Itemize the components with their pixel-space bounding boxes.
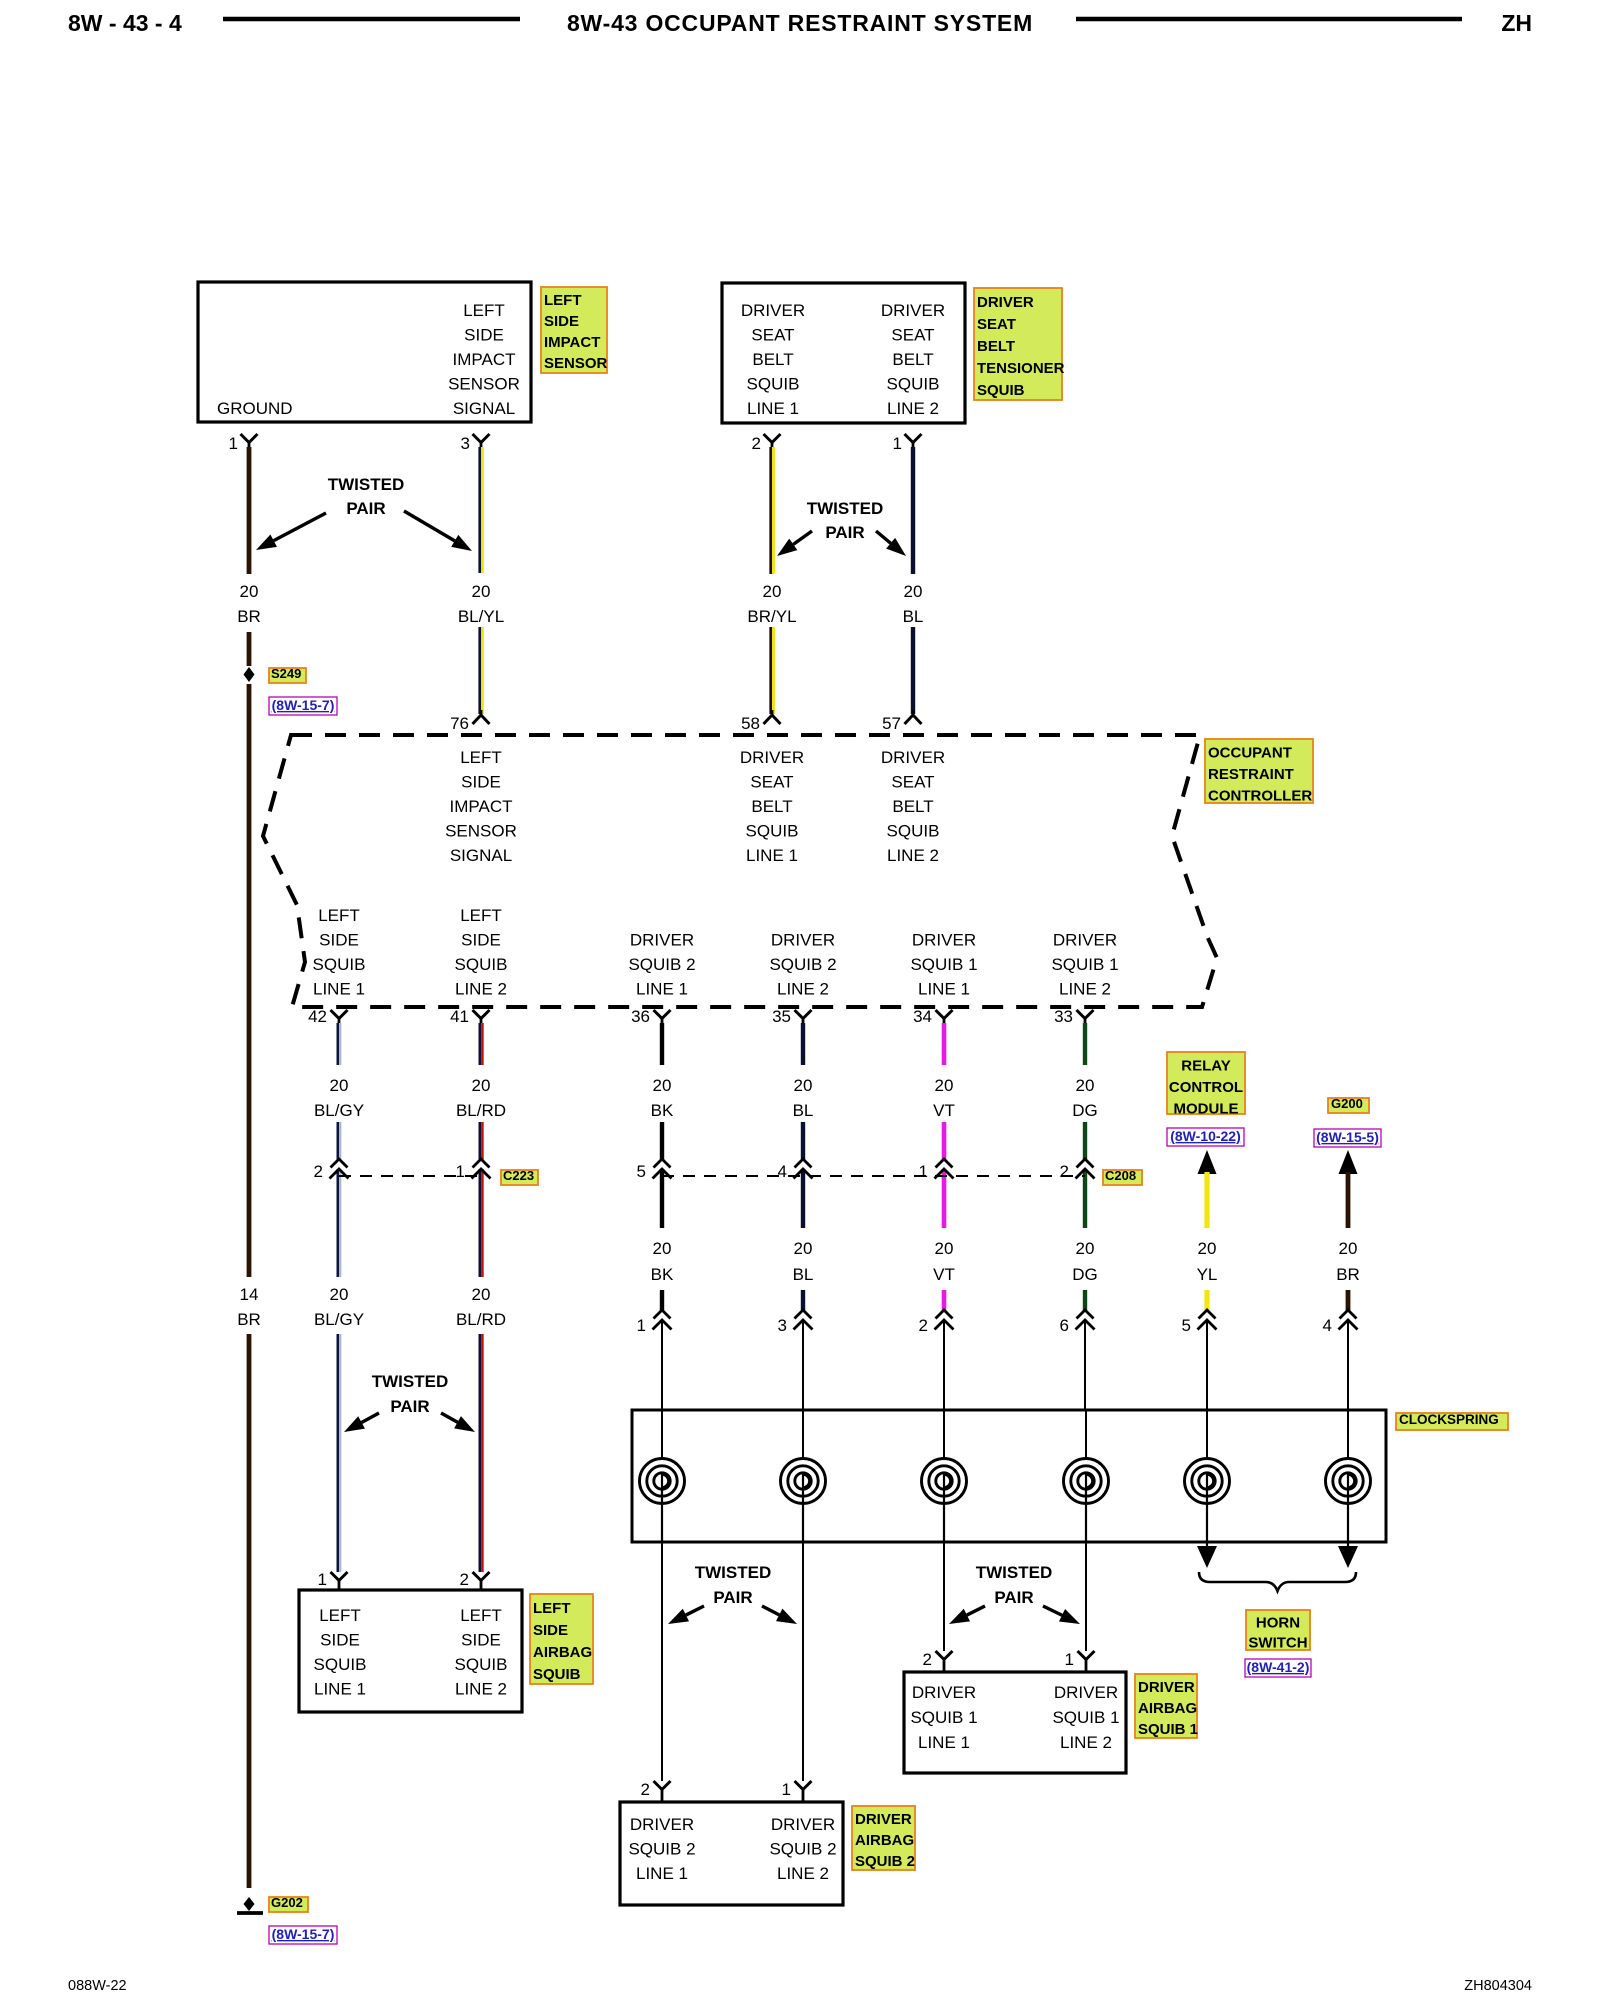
svg-text:20: 20	[794, 1239, 813, 1258]
svg-text:LINE 1: LINE 1	[313, 980, 365, 999]
svg-text:LINE 1: LINE 1	[636, 1864, 688, 1883]
clockspring coil 5	[1206, 1410, 1208, 1459]
wire clockspring to driver airbag squib 1 line 1	[943, 1542, 945, 1651]
svg-text:DRIVER: DRIVER	[630, 1815, 694, 1834]
header rule left	[223, 17, 520, 22]
svg-text:3: 3	[461, 434, 470, 453]
svg-text:34: 34	[913, 1007, 932, 1026]
svg-text:DRIVER: DRIVER	[855, 1811, 912, 1828]
svg-text:(8W-15-5): (8W-15-5)	[1316, 1129, 1379, 1145]
svg-text:20: 20	[904, 582, 923, 601]
svg-text:G200: G200	[1331, 1096, 1363, 1111]
svg-text:TENSIONER: TENSIONER	[977, 360, 1065, 377]
svg-text:LEFT: LEFT	[460, 906, 502, 925]
svg-text:20: 20	[763, 582, 782, 601]
svg-text:LINE 2: LINE 2	[1059, 980, 1111, 999]
svg-text:SQUIB 2: SQUIB 2	[769, 1840, 836, 1859]
component box: left side airbag squib	[299, 1590, 522, 1712]
svg-text:CONTROLLER: CONTROLLER	[1208, 787, 1312, 804]
svg-text:SIGNAL: SIGNAL	[450, 846, 512, 865]
svg-text:CLOCKSPRING: CLOCKSPRING	[1399, 1412, 1499, 1427]
svg-text:MODULE: MODULE	[1174, 1100, 1239, 1117]
svg-text:BL: BL	[903, 607, 924, 626]
svg-text:(8W-41-2): (8W-41-2)	[1247, 1659, 1310, 1675]
svg-text:C223: C223	[503, 1168, 534, 1183]
svg-text:1: 1	[1065, 1650, 1074, 1669]
label: DRIVER AIRBAG SQUIB 2	[852, 1806, 915, 1870]
label: LEFT SIDE IMPACT SENSOR	[541, 287, 607, 373]
svg-text:35: 35	[772, 1007, 791, 1026]
svg-text:IMPACT: IMPACT	[450, 797, 513, 816]
svg-text:PAIR: PAIR	[713, 1588, 752, 1607]
svg-text:TWISTED: TWISTED	[976, 1563, 1053, 1582]
svg-text:BL/GY: BL/GY	[314, 1101, 364, 1120]
svg-text:S249: S249	[271, 666, 301, 681]
svg-text:VT: VT	[933, 1101, 955, 1120]
splice S249	[244, 667, 255, 682]
svg-text:1: 1	[919, 1162, 928, 1181]
module: occupant restraint controller (dashed outline)	[263, 735, 1217, 1007]
svg-text:LINE 2: LINE 2	[777, 1864, 829, 1883]
svg-text:1: 1	[229, 434, 238, 453]
svg-text:(8W-10-22): (8W-10-22)	[1170, 1128, 1241, 1144]
svg-text:BR: BR	[237, 607, 261, 626]
wire 20 BL/RD segment	[478, 1023, 481, 1065]
svg-text:DG: DG	[1072, 1265, 1098, 1284]
svg-text:DRIVER: DRIVER	[881, 301, 945, 320]
svg-text:OCCUPANT: OCCUPANT	[1208, 744, 1292, 761]
svg-text:LEFT: LEFT	[544, 292, 582, 309]
svg-text:20: 20	[472, 1285, 491, 1304]
svg-text:SQUIB: SQUIB	[977, 382, 1025, 399]
svg-text:LINE 2: LINE 2	[887, 399, 939, 418]
svg-text:SEAT: SEAT	[750, 773, 793, 792]
svg-text:SIDE: SIDE	[319, 931, 359, 950]
wire into clockspring (horn feed)	[1206, 1320, 1208, 1410]
svg-text:DRIVER: DRIVER	[1138, 1679, 1195, 1696]
svg-text:LINE 1: LINE 1	[746, 846, 798, 865]
clockspring coil 2	[802, 1410, 804, 1459]
reference 8W-15-7 at S249	[269, 697, 337, 715]
svg-text:LEFT: LEFT	[460, 748, 502, 767]
svg-text:LINE 1: LINE 1	[747, 399, 799, 418]
svg-text:1: 1	[318, 1570, 327, 1589]
svg-text:BELT: BELT	[752, 350, 793, 369]
svg-text:20: 20	[1339, 1239, 1358, 1258]
wire 20 DG segment	[1083, 1023, 1087, 1065]
wire into clockspring	[1084, 1320, 1086, 1410]
svg-text:(8W-15-7): (8W-15-7)	[272, 697, 335, 713]
svg-text:(8W-15-7): (8W-15-7)	[272, 1926, 335, 1942]
svg-text:LINE 1: LINE 1	[314, 1680, 366, 1699]
svg-text:LEFT: LEFT	[463, 301, 505, 320]
clockspring coil 1	[661, 1410, 663, 1459]
wire into clockspring	[802, 1320, 804, 1410]
svg-text:ZH804304: ZH804304	[1464, 1978, 1532, 1994]
reference 8W-41-2	[1245, 1659, 1311, 1677]
svg-text:BL/GY: BL/GY	[314, 1310, 364, 1329]
arrow to relay control module	[1198, 1150, 1217, 1174]
svg-text:IMPACT: IMPACT	[453, 350, 516, 369]
svg-text:DRIVER: DRIVER	[771, 1815, 835, 1834]
connector C208 (dashed link)	[662, 1175, 1085, 1177]
svg-text:1: 1	[893, 434, 902, 453]
svg-text:SIGNAL: SIGNAL	[453, 399, 515, 418]
svg-text:LINE 2: LINE 2	[887, 846, 939, 865]
svg-text:SQUIB 2: SQUIB 2	[628, 1840, 695, 1859]
svg-text:BELT: BELT	[892, 350, 933, 369]
svg-text:SIDE: SIDE	[461, 773, 501, 792]
svg-text:76: 76	[450, 714, 469, 733]
svg-text:PAIR: PAIR	[346, 499, 385, 518]
svg-text:4: 4	[778, 1162, 787, 1181]
svg-text:SIDE: SIDE	[320, 1631, 360, 1650]
svg-text:PAIR: PAIR	[994, 1588, 1033, 1607]
svg-text:LINE 1: LINE 1	[636, 980, 688, 999]
wire 20 BL segment	[801, 1023, 805, 1065]
label: DRIVER SEAT BELT TENSIONER SQUIB	[974, 288, 1062, 400]
clockspring coil 6	[1347, 1410, 1349, 1459]
wire 14 BR down left side	[247, 684, 252, 1277]
svg-text:SQUIB: SQUIB	[887, 822, 940, 841]
svg-text:20: 20	[330, 1076, 349, 1095]
svg-text:SENSOR: SENSOR	[445, 822, 517, 841]
arrow to G200 ground	[1339, 1150, 1358, 1174]
svg-text:2: 2	[641, 1780, 650, 1799]
svg-text:6: 6	[1060, 1316, 1069, 1335]
component box: driver airbag squib 1	[904, 1672, 1126, 1773]
label: RELAY CONTROL MODULE	[1167, 1052, 1245, 1114]
svg-text:IMPACT: IMPACT	[544, 334, 600, 351]
svg-text:PAIR: PAIR	[390, 1397, 429, 1416]
svg-text:088W-22: 088W-22	[68, 1978, 127, 1994]
svg-text:20: 20	[240, 582, 259, 601]
svg-text:2: 2	[314, 1162, 323, 1181]
svg-text:DRIVER: DRIVER	[881, 748, 945, 767]
svg-text:LEFT: LEFT	[319, 1606, 361, 1625]
svg-text:C208: C208	[1105, 1168, 1136, 1183]
reference 8W-15-7 at G202	[269, 1926, 337, 1944]
svg-text:RELAY: RELAY	[1181, 1057, 1230, 1074]
svg-text:BK: BK	[651, 1101, 674, 1120]
svg-text:SENSOR: SENSOR	[448, 375, 520, 394]
svg-text:DRIVER: DRIVER	[740, 748, 804, 767]
svg-text:SQUIB: SQUIB	[533, 1666, 581, 1683]
svg-text:YL: YL	[1197, 1265, 1218, 1284]
svg-text:SQUIB 2: SQUIB 2	[769, 955, 836, 974]
svg-text:1: 1	[637, 1316, 646, 1335]
svg-text:LINE 2: LINE 2	[455, 980, 507, 999]
svg-text:20: 20	[1076, 1239, 1095, 1258]
svg-text:SIDE: SIDE	[461, 1631, 501, 1650]
svg-text:BR: BR	[237, 1310, 261, 1329]
svg-text:SQUIB 1: SQUIB 1	[910, 955, 977, 974]
svg-text:HORN: HORN	[1256, 1614, 1300, 1631]
svg-text:SQUIB: SQUIB	[455, 955, 508, 974]
svg-text:SQUIB 1: SQUIB 1	[1052, 1708, 1119, 1727]
svg-text:SQUIB 2: SQUIB 2	[628, 955, 695, 974]
svg-text:TWISTED: TWISTED	[372, 1372, 449, 1391]
wire clockspring to driver airbag squib 2 line 2	[802, 1542, 804, 1781]
svg-text:BK: BK	[651, 1265, 674, 1284]
reference 8W-15-5	[1314, 1129, 1381, 1147]
wire clockspring to driver airbag squib 1 line 2	[1085, 1542, 1087, 1651]
svg-text:BL/RD: BL/RD	[456, 1101, 506, 1120]
wire into clockspring	[661, 1320, 663, 1410]
svg-text:BELT: BELT	[751, 797, 792, 816]
svg-text:36: 36	[631, 1007, 650, 1026]
svg-text:PAIR: PAIR	[825, 523, 864, 542]
component box: clockspring	[632, 1410, 1386, 1542]
svg-text:5: 5	[1182, 1316, 1191, 1335]
svg-text:AIRBAG: AIRBAG	[533, 1644, 592, 1661]
svg-text:BL/RD: BL/RD	[456, 1310, 506, 1329]
svg-text:BELT: BELT	[977, 338, 1015, 355]
wire 20 BR/YL from belt squib pin 2	[769, 447, 772, 574]
svg-text:SQUIB: SQUIB	[314, 1655, 367, 1674]
svg-text:2: 2	[919, 1316, 928, 1335]
label: LEFT SIDE AIRBAG SQUIB	[530, 1594, 593, 1684]
svg-text:SEAT: SEAT	[751, 326, 794, 345]
svg-text:LINE 1: LINE 1	[918, 980, 970, 999]
svg-text:TWISTED: TWISTED	[328, 475, 405, 494]
header rule right	[1076, 17, 1462, 22]
svg-text:1: 1	[782, 1780, 791, 1799]
svg-text:2: 2	[1060, 1162, 1069, 1181]
horn switch brace	[1199, 1572, 1356, 1591]
svg-text:20: 20	[653, 1076, 672, 1095]
svg-text:20: 20	[472, 582, 491, 601]
wire 20 VT segment	[942, 1023, 947, 1065]
wire 20 BR (horn ground)	[1346, 1172, 1351, 1228]
component box: left side impact sensor	[198, 282, 531, 422]
svg-text:RESTRAINT: RESTRAINT	[1208, 766, 1294, 783]
svg-text:SQUIB 2: SQUIB 2	[855, 1853, 915, 1870]
svg-text:SQUIB 1: SQUIB 1	[1051, 955, 1118, 974]
svg-text:TWISTED: TWISTED	[807, 499, 884, 518]
svg-text:SWITCH: SWITCH	[1248, 1634, 1307, 1651]
svg-text:SQUIB: SQUIB	[747, 375, 800, 394]
svg-text:LEFT: LEFT	[318, 906, 360, 925]
clockspring coil 4	[1085, 1410, 1087, 1459]
svg-text:DRIVER: DRIVER	[630, 931, 694, 950]
wire clockspring to driver airbag squib 2 line 1	[661, 1542, 663, 1781]
label: OCCUPANT RESTRAINT CONTROLLER	[1205, 739, 1313, 803]
wire 20 BL from belt squib pin 1	[911, 447, 915, 574]
svg-text:58: 58	[741, 714, 760, 733]
wire 20 YL	[1204, 1172, 1209, 1228]
svg-text:33: 33	[1054, 1007, 1073, 1026]
label: CLOCKSPRING	[1396, 1413, 1508, 1430]
svg-text:SEAT: SEAT	[891, 773, 934, 792]
svg-text:SQUIB: SQUIB	[455, 1655, 508, 1674]
svg-text:SENSOR: SENSOR	[544, 355, 608, 372]
svg-text:20: 20	[1076, 1076, 1095, 1095]
svg-text:4: 4	[1323, 1316, 1332, 1335]
svg-text:DRIVER: DRIVER	[741, 301, 805, 320]
svg-text:SIDE: SIDE	[461, 931, 501, 950]
svg-text:DG: DG	[1072, 1101, 1098, 1120]
svg-text:2: 2	[923, 1650, 932, 1669]
svg-text:57: 57	[882, 714, 901, 733]
svg-text:SQUIB: SQUIB	[887, 375, 940, 394]
svg-text:VT: VT	[933, 1265, 955, 1284]
svg-text:SEAT: SEAT	[891, 326, 934, 345]
svg-text:20: 20	[935, 1239, 954, 1258]
svg-text:20: 20	[653, 1239, 672, 1258]
svg-text:BL/YL: BL/YL	[458, 607, 504, 626]
svg-text:8W - 43 - 4: 8W - 43 - 4	[68, 10, 182, 36]
svg-text:BELT: BELT	[892, 797, 933, 816]
svg-text:G202: G202	[271, 1895, 303, 1910]
svg-text:14: 14	[240, 1285, 259, 1304]
component box: driver airbag squib 2	[620, 1802, 843, 1905]
svg-text:CONTROL: CONTROL	[1169, 1079, 1243, 1096]
svg-text:BR/YL: BR/YL	[747, 607, 796, 626]
svg-text:SIDE: SIDE	[544, 313, 579, 330]
svg-text:DRIVER: DRIVER	[771, 931, 835, 950]
svg-text:2: 2	[752, 434, 761, 453]
svg-text:20: 20	[1198, 1239, 1217, 1258]
svg-text:20: 20	[472, 1076, 491, 1095]
svg-text:1: 1	[456, 1162, 465, 1181]
wire 20 BR from sensor pin 1	[247, 447, 252, 574]
svg-text:BL: BL	[793, 1101, 814, 1120]
svg-text:LEFT: LEFT	[533, 1600, 571, 1617]
ground G202 symbol	[244, 1897, 255, 1911]
svg-text:LINE 2: LINE 2	[1060, 1733, 1112, 1752]
horn switch feed arrow	[1197, 1546, 1217, 1568]
label: HORN SWITCH	[1246, 1610, 1310, 1650]
svg-text:SQUIB 1: SQUIB 1	[910, 1708, 977, 1727]
svg-text:41: 41	[450, 1007, 469, 1026]
svg-text:20: 20	[935, 1076, 954, 1095]
svg-text:DRIVER: DRIVER	[977, 294, 1034, 311]
svg-text:20: 20	[330, 1285, 349, 1304]
svg-text:DRIVER: DRIVER	[1054, 1683, 1118, 1702]
svg-text:BL: BL	[793, 1265, 814, 1284]
svg-text:TWISTED: TWISTED	[695, 1563, 772, 1582]
svg-text:LINE 1: LINE 1	[918, 1733, 970, 1752]
reference 8W-10-22	[1167, 1128, 1244, 1146]
label: G200	[1328, 1098, 1369, 1113]
svg-text:SIDE: SIDE	[464, 326, 504, 345]
svg-text:42: 42	[308, 1007, 327, 1026]
svg-text:AIRBAG: AIRBAG	[1138, 1700, 1197, 1717]
component box: driver seat belt tensioner squib	[722, 283, 965, 423]
svg-text:LINE 2: LINE 2	[455, 1680, 507, 1699]
label: G202	[269, 1897, 308, 1912]
svg-text:AIRBAG: AIRBAG	[855, 1832, 914, 1849]
svg-text:SQUIB: SQUIB	[746, 822, 799, 841]
svg-text:2: 2	[460, 1570, 469, 1589]
svg-text:SIDE: SIDE	[533, 1622, 568, 1639]
svg-text:SQUIB 1: SQUIB 1	[1138, 1721, 1198, 1738]
svg-text:8W-43 OCCUPANT RESTRAINT SYSTE: 8W-43 OCCUPANT RESTRAINT SYSTEM	[567, 10, 1033, 36]
wire into clockspring (horn ground)	[1347, 1320, 1349, 1410]
horn switch ground arrow	[1338, 1546, 1358, 1568]
wire 20 BL/GY segment	[336, 1023, 339, 1065]
clockspring coil 3	[943, 1410, 945, 1459]
svg-text:GROUND: GROUND	[217, 399, 293, 418]
svg-text:DRIVER: DRIVER	[1053, 931, 1117, 950]
label: DRIVER AIRBAG SQUIB 1	[1135, 1674, 1197, 1738]
svg-text:20: 20	[794, 1076, 813, 1095]
connector C223 (dashed link)	[339, 1175, 481, 1177]
svg-text:5: 5	[637, 1162, 646, 1181]
wire 20 BK segment	[660, 1023, 664, 1065]
svg-text:3: 3	[778, 1316, 787, 1335]
svg-text:LEFT: LEFT	[460, 1606, 502, 1625]
svg-text:DRIVER: DRIVER	[912, 931, 976, 950]
svg-text:ZH: ZH	[1501, 10, 1532, 36]
svg-text:SQUIB: SQUIB	[313, 955, 366, 974]
svg-text:DRIVER: DRIVER	[912, 1683, 976, 1702]
svg-text:SEAT: SEAT	[977, 316, 1016, 333]
svg-text:LINE 2: LINE 2	[777, 980, 829, 999]
svg-text:BR: BR	[1336, 1265, 1360, 1284]
wire 20 BL/YL from sensor pin 3	[478, 447, 481, 573]
wire into clockspring	[943, 1320, 945, 1410]
